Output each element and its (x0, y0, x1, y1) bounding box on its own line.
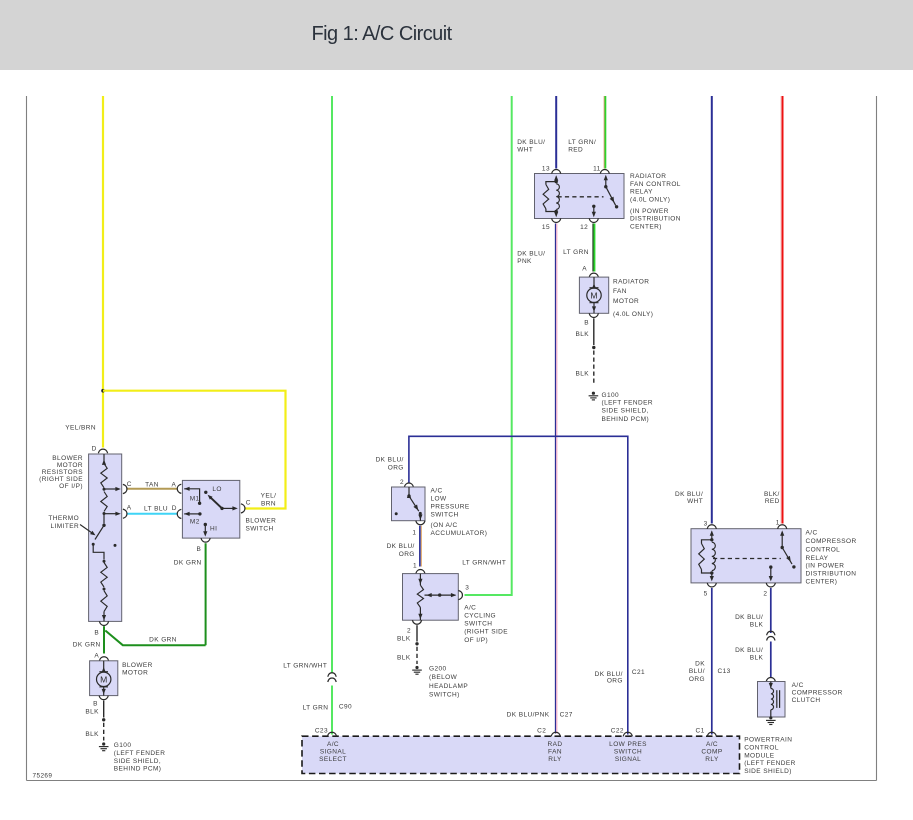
svg-text:(LEFT FENDER: (LEFT FENDER (744, 760, 796, 767)
compressor relay stationary contact (792, 565, 795, 568)
svg-text:C: C (127, 481, 132, 488)
svg-text:SWITCH: SWITCH (431, 512, 459, 519)
svg-text:SIDE SHIELD,: SIDE SHIELD, (114, 758, 161, 765)
relay switch arm and pin 11 arrow (604, 175, 608, 180)
svg-text:DK BLU/: DK BLU/ (376, 456, 404, 463)
blower motor internal symbol (103, 661, 105, 672)
svg-text:LT GRN: LT GRN (303, 705, 329, 712)
svg-text:C13: C13 (718, 668, 731, 675)
svg-text:HEADLAMP: HEADLAMP (429, 683, 468, 690)
cycling switch wiper horizontal (425, 594, 456, 596)
terminal C connector arc (241, 504, 245, 513)
svg-text:M: M (590, 290, 597, 300)
wire DK BLU/WHT feed to relay pin 13 (555, 96, 557, 169)
svg-text:BLU/: BLU/ (689, 668, 705, 675)
svg-text:C21: C21 (632, 669, 645, 676)
compressor relay arrow down to pin 5 (711, 573, 713, 577)
wire BLK below blower motor (103, 701, 105, 718)
svg-text:FAN: FAN (548, 749, 562, 756)
svg-text:CONTROL: CONTROL (744, 744, 779, 751)
pin 1 connector arc (416, 521, 425, 525)
LO contact dot (204, 491, 207, 494)
svg-text:12: 12 (580, 224, 588, 231)
svg-text:DK BLU/: DK BLU/ (387, 543, 415, 550)
svg-text:ORG: ORG (689, 676, 705, 683)
svg-text:ORG: ORG (388, 465, 404, 472)
svg-text:C1: C1 (696, 728, 705, 735)
svg-text:BLK: BLK (575, 331, 589, 338)
svg-text:TAN: TAN (145, 481, 159, 488)
svg-text:YEL/: YEL/ (261, 493, 277, 500)
thermo limiter switch symbol (103, 514, 105, 524)
wire TAN resistor C to switch A (128, 488, 178, 490)
thermo limiter pointer arrow (80, 525, 94, 535)
svg-text:DK GRN: DK GRN (149, 636, 177, 643)
svg-text:C23: C23 (315, 728, 328, 735)
svg-text:1: 1 (776, 520, 780, 527)
svg-text:ORG: ORG (607, 677, 623, 684)
svg-text:LT GRN/: LT GRN/ (568, 139, 596, 146)
svg-text:LO: LO (212, 486, 222, 493)
inline connector on clutch wire (767, 631, 775, 635)
terminal A connector arc (177, 484, 181, 493)
svg-text:COMP: COMP (701, 749, 722, 756)
diagram frame left border (26, 96, 28, 781)
svg-text:BLK: BLK (750, 655, 764, 662)
relay coil inductor branch (556, 184, 559, 210)
svg-text:BLOWER: BLOWER (246, 518, 277, 525)
svg-text:BLK/: BLK/ (764, 491, 780, 498)
resistor block BLOWER MOTOR RESISTORS box (89, 454, 122, 621)
contact dot inside low pressure switch (395, 512, 398, 515)
svg-text:M2: M2 (190, 519, 200, 526)
svg-text:SIDE SHIELD): SIDE SHIELD) (744, 768, 792, 775)
svg-text:DK BLU/PNK: DK BLU/PNK (507, 711, 550, 718)
svg-text:2: 2 (400, 479, 404, 486)
svg-text:BLK: BLK (85, 708, 99, 715)
svg-text:MOTOR: MOTOR (122, 669, 148, 676)
motor BLOWER MOTOR box (90, 661, 118, 696)
svg-text:DK BLU/: DK BLU/ (517, 139, 545, 146)
svg-text:MOTOR: MOTOR (57, 462, 83, 469)
pin 2 connector arc (404, 483, 413, 487)
svg-text:FAN: FAN (613, 288, 627, 295)
svg-text:CENTER): CENTER) (630, 223, 662, 230)
wire LT BLU resistor A to switch D (128, 513, 178, 515)
title band (0, 0, 913, 70)
wire BLK/RED feed to compressor relay pin 1 (780, 96, 782, 524)
module POWERTRAIN CONTROL MODULE box (302, 736, 740, 773)
wire YEL/BRN branch to blower switch C (103, 391, 286, 509)
svg-text:OF I/P): OF I/P) (464, 637, 488, 644)
terminal A connector arc (123, 509, 127, 518)
svg-text:CLUTCH: CLUTCH (792, 697, 821, 704)
svg-text:(IN POWER: (IN POWER (630, 208, 669, 215)
pin 12 connector arc (589, 218, 598, 222)
svg-text:LT GRN/WHT: LT GRN/WHT (462, 559, 506, 566)
wire DK BLU/BLK from pin 2 to inline connector (770, 588, 772, 633)
pin 13 connector arc (552, 170, 561, 174)
wire DK BLU/WHT feed to compressor relay pin 3 (711, 96, 713, 524)
svg-text:HI: HI (210, 525, 217, 532)
svg-text:SIDE SHIELD,: SIDE SHIELD, (602, 408, 649, 415)
svg-text:DK GRN: DK GRN (73, 642, 101, 649)
svg-text:COMPRESSOR: COMPRESSOR (792, 690, 843, 697)
C2 connector arc (551, 732, 560, 736)
svg-text:PRESSURE: PRESSURE (431, 504, 470, 511)
svg-text:BLOWER: BLOWER (122, 662, 153, 669)
svg-text:ORG: ORG (399, 551, 415, 558)
svg-text:BLOWER: BLOWER (52, 455, 83, 462)
svg-text:RLY: RLY (548, 756, 562, 763)
svg-text:(4.0L ONLY): (4.0L ONLY) (630, 196, 670, 203)
svg-text:SIGNAL: SIGNAL (320, 749, 346, 756)
wire DK BLU/ORG between switches (419, 526, 421, 567)
clutch A/C COMPRESSOR CLUTCH box (758, 682, 786, 718)
splice dot R3/R4 (103, 588, 106, 591)
svg-text:A/C: A/C (792, 682, 804, 689)
svg-text:13: 13 (542, 165, 550, 172)
wiper output line to C (222, 507, 236, 509)
svg-text:(ON A/C: (ON A/C (431, 522, 458, 529)
wire LT GRN from relay pin 12 to radiator fan motor (592, 224, 594, 272)
compressor relay dashed actuator link (713, 558, 781, 560)
svg-text:C27: C27 (560, 711, 573, 718)
low pressure switch internals (408, 487, 410, 496)
terminal B connector arc (99, 621, 108, 625)
svg-text:3: 3 (465, 585, 469, 592)
svg-text:M: M (100, 674, 107, 684)
svg-text:RLY: RLY (705, 756, 719, 763)
svg-text:PNK: PNK (517, 258, 532, 265)
C1 connector arc (707, 732, 716, 736)
wire DK BLU/BLK to clutch (770, 642, 772, 678)
resistor bottom arrow (103, 612, 105, 622)
compressor relay coil resistor branch (702, 540, 712, 544)
svg-text:C90: C90 (339, 704, 352, 711)
compressor relay switch arm (780, 530, 784, 535)
pin 2 connector arc (412, 620, 421, 624)
svg-text:DK BLU/: DK BLU/ (735, 614, 763, 621)
pin 3 connector arc (458, 591, 462, 600)
clutch coil symbol (770, 682, 772, 689)
compressor relay coil arrow up (711, 532, 713, 540)
motor RADIATOR FAN MOTOR box (579, 277, 608, 313)
svg-text:BEHIND PCM): BEHIND PCM) (602, 416, 650, 423)
resistor R3 (101, 563, 107, 588)
wire LT GRN/WHT vertical feed x332 (331, 96, 333, 674)
clutch ground (769, 716, 772, 719)
splice dot R3 top (103, 560, 106, 563)
HI contact (204, 523, 207, 526)
svg-text:C2: C2 (537, 728, 546, 735)
svg-text:2: 2 (763, 590, 767, 597)
pin 1 connector arc cycling switch (416, 570, 425, 574)
tap node to C (103, 488, 106, 491)
wiper pivot dot (220, 507, 223, 510)
terminal C connector arc (123, 484, 127, 493)
svg-text:BLK: BLK (397, 654, 411, 661)
svg-text:ACCUMULATOR): ACCUMULATOR) (431, 530, 488, 537)
relay pin 12 contact and arrow (592, 205, 595, 208)
compressor relay coil top node (710, 538, 713, 541)
terminal A connector arc (99, 657, 108, 661)
svg-text:SIGNAL: SIGNAL (615, 756, 641, 763)
svg-text:BLK: BLK (750, 622, 764, 629)
svg-text:5: 5 (704, 590, 708, 597)
switch wiper arm (210, 497, 222, 508)
diagram frame bottom border (27, 780, 877, 782)
terminal B connector arc (99, 696, 108, 700)
svg-text:DK BLU/: DK BLU/ (735, 647, 763, 654)
wire LT GRN below C90 to PCM C23 (331, 686, 333, 735)
svg-text:RELAY: RELAY (806, 555, 829, 562)
switch A/C LOW PRESSURE SWITCH box (392, 487, 426, 521)
svg-text:DISTRIBUTION: DISTRIBUTION (806, 570, 857, 577)
svg-text:DK: DK (695, 660, 705, 667)
wire DK GRN horizontal (105, 631, 205, 646)
svg-text:LOW PRES: LOW PRES (609, 741, 647, 748)
svg-text:Fig 1: A/C Circuit: Fig 1: A/C Circuit (312, 23, 453, 45)
dashed BLK wire to G100 (593, 351, 595, 386)
relay stationary contact (615, 205, 618, 208)
relay RADIATOR FAN CONTROL RELAY box (535, 174, 625, 219)
svg-text:A: A (582, 266, 587, 273)
svg-text:D: D (92, 445, 97, 452)
svg-text:RADIATOR: RADIATOR (630, 173, 666, 180)
svg-text:B: B (584, 319, 589, 326)
svg-text:LT GRN: LT GRN (563, 249, 589, 256)
relay coil resistor branch (546, 182, 556, 185)
wire DK BLU/ORG horizontal run to low pressure switch and PCM C22 (409, 436, 628, 734)
wire DK GRN from switch B down (205, 543, 207, 645)
motor internal symbol (593, 277, 595, 288)
svg-text:CENTER): CENTER) (806, 578, 838, 585)
svg-text:YEL/BRN: YEL/BRN (65, 424, 96, 431)
svg-text:MOTOR: MOTOR (613, 298, 639, 305)
pin 5 connector arc (707, 583, 716, 587)
svg-text:COMPRESSOR: COMPRESSOR (806, 538, 857, 545)
svg-text:RED: RED (568, 146, 583, 153)
svg-text:SWITCH: SWITCH (614, 749, 642, 756)
terminal B connector arc (201, 538, 210, 542)
svg-text:B: B (197, 546, 202, 553)
svg-text:A/C: A/C (464, 604, 476, 611)
svg-text:RESISTORS: RESISTORS (42, 469, 83, 476)
wire DK BLU/PNK from relay pin 15 to PCM C2 (555, 224, 557, 734)
svg-text:MODULE: MODULE (744, 752, 775, 759)
svg-text:75269: 75269 (33, 773, 53, 780)
compressor relay pin 2 contact and arrow (769, 565, 772, 568)
svg-text:SWITCH: SWITCH (464, 621, 492, 628)
svg-text:A/C: A/C (327, 741, 339, 748)
inline connector C90 (328, 673, 336, 677)
svg-text:SWITCH: SWITCH (246, 525, 274, 532)
svg-text:CYCLING: CYCLING (464, 613, 496, 620)
diagram frame right border (876, 96, 878, 781)
svg-text:LOW: LOW (431, 495, 448, 502)
resistor R2 (101, 492, 107, 512)
svg-text:(BELOW: (BELOW (429, 674, 458, 681)
svg-text:RADIATOR: RADIATOR (613, 278, 649, 285)
svg-text:SELECT: SELECT (319, 756, 347, 763)
pin 11 connector arc (600, 170, 609, 174)
terminal A connector arc (589, 273, 598, 277)
relay coil top node (555, 180, 558, 183)
svg-text:B: B (94, 630, 99, 637)
ground G200 (415, 666, 418, 669)
svg-text:(RIGHT SIDE: (RIGHT SIDE (464, 629, 508, 636)
wire BLK below radiator fan motor (593, 318, 595, 345)
terminal B connector arc (589, 313, 598, 317)
svg-text:(IN POWER: (IN POWER (806, 562, 845, 569)
wire DK GRN resistor B to blower motor A (103, 626, 105, 653)
splice dot (415, 642, 418, 645)
svg-text:G100: G100 (602, 392, 620, 399)
svg-text:2: 2 (407, 628, 411, 635)
wire LT GRN/WHT feed x512 to cycling switch pin 3 (465, 96, 512, 595)
tap node to A (103, 512, 106, 515)
terminal D connector arc (177, 509, 181, 518)
svg-text:3: 3 (704, 520, 708, 527)
svg-text:C22: C22 (611, 728, 624, 735)
svg-text:SWITCH): SWITCH) (429, 691, 460, 698)
relay dashed actuator link (558, 196, 604, 198)
svg-text:DK BLU/: DK BLU/ (675, 491, 703, 498)
relay coil arrow up at pin 13 (555, 177, 557, 183)
clutch connector arc (766, 677, 775, 681)
svg-text:A/C: A/C (706, 741, 718, 748)
svg-text:WHT: WHT (517, 146, 533, 153)
resistor internals top arrow (103, 454, 105, 464)
svg-text:(RIGHT SIDE: (RIGHT SIDE (39, 476, 83, 483)
svg-text:POWERTRAIN: POWERTRAIN (744, 737, 792, 744)
svg-text:(LEFT FENDER: (LEFT FENDER (114, 750, 166, 757)
svg-text:RELAY: RELAY (630, 189, 653, 196)
svg-text:A/C: A/C (806, 530, 818, 537)
relay A/C COMPRESSOR CONTROL RELAY box (691, 529, 801, 583)
compressor relay coil inductor branch (712, 542, 716, 570)
svg-text:(4.0L ONLY): (4.0L ONLY) (613, 311, 653, 318)
svg-text:FAN CONTROL: FAN CONTROL (630, 181, 681, 188)
dashed BLK wire to G200 (416, 647, 418, 664)
svg-text:B: B (93, 700, 98, 707)
cycling switch internals (419, 574, 421, 586)
svg-text:BLK: BLK (85, 731, 99, 738)
svg-text:THERMO: THERMO (48, 515, 79, 522)
wire LT GRN/RED feed to relay pin 11 (603, 96, 605, 169)
splice dot (592, 346, 595, 349)
svg-text:1: 1 (412, 530, 416, 537)
svg-text:DK GRN: DK GRN (174, 560, 202, 567)
svg-text:CONTROL: CONTROL (806, 547, 841, 554)
svg-text:D: D (172, 505, 177, 512)
contact dot inside resistor block (114, 544, 117, 547)
svg-text:A/C: A/C (431, 487, 443, 494)
switch A/C CYCLING SWITCH box (403, 574, 459, 621)
svg-text:11: 11 (593, 165, 601, 172)
svg-text:(LEFT FENDER: (LEFT FENDER (602, 399, 654, 406)
pin 15 connector arc (552, 218, 561, 222)
svg-text:C: C (246, 500, 251, 507)
svg-text:15: 15 (542, 224, 550, 231)
svg-text:OF I/P): OF I/P) (59, 483, 83, 490)
svg-text:RED: RED (765, 498, 780, 505)
clutch plates (776, 690, 778, 708)
svg-text:RAD: RAD (548, 741, 563, 748)
svg-text:BRN: BRN (261, 501, 276, 508)
svg-text:M1: M1 (190, 495, 200, 502)
svg-text:A: A (94, 652, 99, 659)
node junction on YEL/BRN wire (101, 389, 105, 393)
compressor relay coil bottom node (710, 571, 713, 574)
pin 3 connector arc (707, 525, 716, 529)
svg-text:WHT: WHT (687, 498, 703, 505)
svg-text:BLK: BLK (575, 370, 589, 377)
resistor R4 (101, 591, 107, 612)
terminal D connector arc (98, 449, 107, 453)
switch BLOWER SWITCH box (182, 480, 239, 538)
M1 contact line (184, 487, 189, 491)
svg-text:LIMITER: LIMITER (51, 523, 80, 530)
wire YEL/BRN vertical feed from top (102, 96, 104, 448)
svg-text:A: A (172, 481, 177, 488)
svg-text:G100: G100 (114, 742, 132, 749)
svg-text:A: A (127, 505, 132, 512)
M2 contact line (184, 512, 189, 516)
splice dot (102, 718, 105, 721)
svg-text:LT GRN/WHT: LT GRN/WHT (283, 662, 327, 669)
svg-text:DK BLU/: DK BLU/ (517, 250, 545, 257)
wire DK BLU/ORG from pin 5 to PCM C1 (711, 588, 713, 735)
svg-text:BEHIND PCM): BEHIND PCM) (114, 766, 162, 773)
ground G100 radiator fan (592, 392, 595, 395)
svg-text:G200: G200 (429, 666, 447, 673)
pin 1 connector arc (778, 525, 787, 529)
pin 2 connector arc (766, 583, 775, 587)
relay coil bottom node (555, 210, 558, 213)
svg-text:1: 1 (413, 562, 417, 569)
relay coil arrow down to pin 15 (555, 212, 557, 214)
svg-text:LT BLU: LT BLU (144, 505, 168, 512)
svg-text:BLK: BLK (397, 636, 411, 643)
wire BLK below cycling switch (416, 625, 418, 641)
C22 connector arc (623, 732, 632, 736)
svg-text:DISTRIBUTION: DISTRIBUTION (630, 216, 681, 223)
dashed BLK wire to G100 (103, 723, 105, 741)
C23 connector arc (327, 732, 336, 736)
resistor R1 (101, 464, 107, 488)
ground G100 blower (102, 742, 105, 745)
